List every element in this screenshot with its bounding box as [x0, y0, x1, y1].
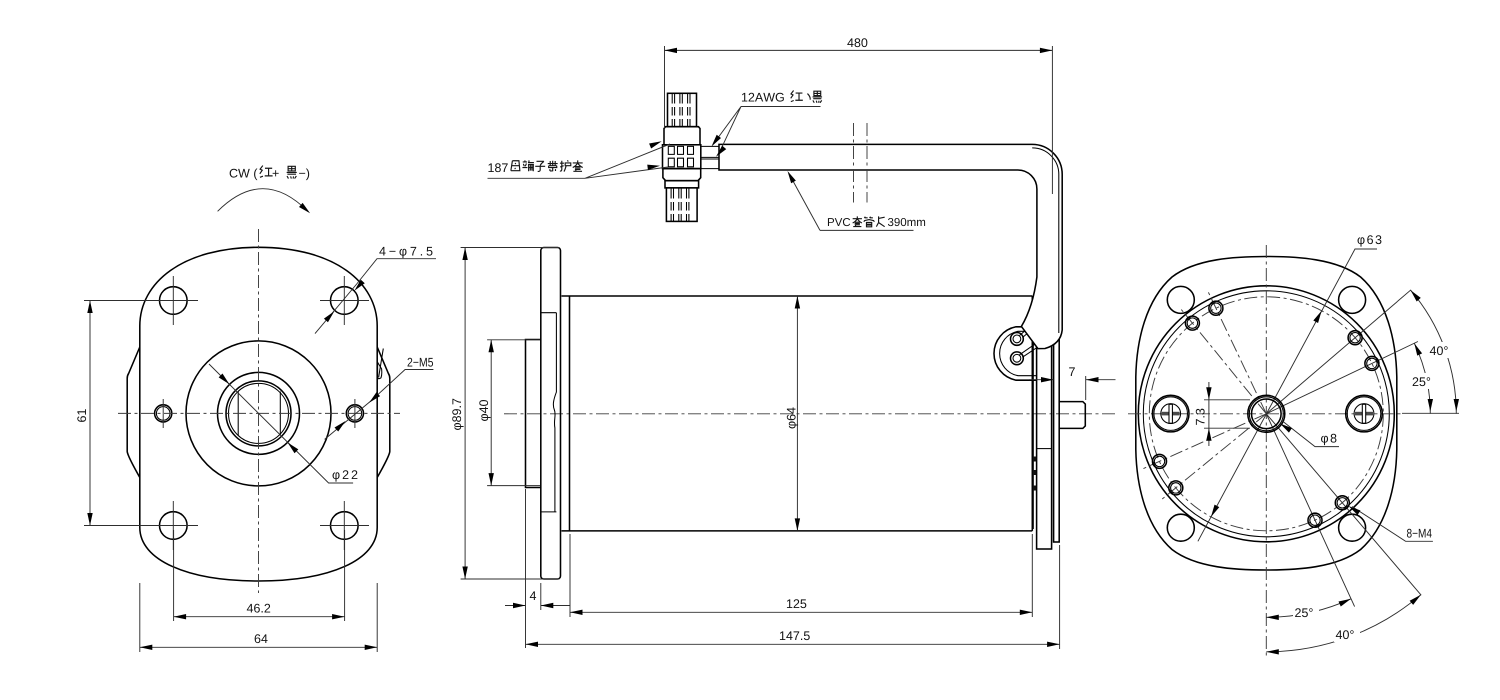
dim 147.5: [526, 545, 1060, 649]
front flange side profile: [541, 248, 561, 580]
bolt hole bottom-right: [320, 501, 369, 550]
phi8 label: [1321, 434, 1336, 445]
radial line 219.3: [1160, 414, 1267, 501]
dim 480: [665, 38, 1053, 194]
terminal crimp bottom: [666, 188, 697, 222]
terminal housing: [663, 145, 701, 169]
label 40 right: [1428, 342, 1452, 358]
M4 hole 310.5: [1335, 496, 1349, 510]
2-M5 leader: [325, 370, 434, 440]
pilot boss phi40: [526, 340, 541, 488]
corner slot top-left: [1167, 286, 1194, 313]
keyway notch quad: [378, 362, 382, 378]
M4 hole 294.6: [1308, 513, 1322, 527]
angle arc 25 right: [1412, 342, 1433, 414]
wires to connector: [701, 146, 719, 168]
front vertical centerline: [258, 229, 260, 593]
FRONT VIEW GROUP: [77, 166, 436, 652]
bearing ring outer: [226, 381, 291, 446]
dim 46.2: [174, 530, 345, 621]
terminal sleeve top: [664, 127, 700, 145]
wire eyelet lower: [1011, 352, 1024, 365]
flange hub stubs: [541, 313, 557, 512]
left side bulge: [127, 347, 140, 478]
terminal crimp top: [668, 93, 697, 126]
4-phi7.5 label: [379, 247, 432, 258]
phi63 leader diagonal: [1198, 249, 1377, 541]
rear cap plate: [1054, 287, 1060, 542]
phi63 label: [1358, 235, 1382, 246]
wire outlet boss inner arc: [1000, 331, 1037, 375]
cable break marks: [854, 123, 868, 203]
PVC leader: [785, 170, 820, 231]
through-bolt screw right: [1346, 395, 1383, 432]
12AWG label: [741, 91, 822, 107]
PVC label: [820, 216, 925, 230]
radial line 310.5: [1266, 414, 1421, 595]
center boss circle: [186, 341, 331, 486]
label 40 bottom: [1334, 626, 1360, 642]
dim 7.3: [1196, 382, 1250, 446]
M4 hole 129.2: [1185, 316, 1199, 330]
shaft flat right: [279, 392, 281, 436]
187 terminal leaders: [585, 139, 670, 179]
radial line 204.1: [1140, 414, 1266, 470]
wire stub lower: [1020, 339, 1047, 358]
body end ring line: [1032, 299, 1034, 529]
clamp step rects: [1033, 297, 1037, 313]
flange hub inner line with wiggle: [553, 313, 556, 512]
side horizontal centerline: [504, 413, 1118, 415]
rear shaft stub: [1059, 402, 1085, 429]
dim 7: [1029, 367, 1116, 400]
bolt hole bottom-left: [149, 501, 198, 550]
wire outlet boss outer arc: [994, 327, 1037, 380]
rear horizontal dim extension: [1402, 412, 1459, 414]
center shaft boss ring: [1248, 395, 1285, 432]
SIDE VIEW GROUP: [452, 38, 1118, 649]
12AWG leaders: [709, 107, 741, 159]
label 25 right: [1411, 373, 1435, 389]
dim 64: [140, 583, 377, 652]
wire eyelet upper: [1011, 333, 1024, 346]
bearing ring inner: [229, 383, 289, 443]
dim 61: [77, 301, 198, 526]
angle arc 40 right: [1409, 288, 1459, 413]
M4 hole 204.1: [1153, 454, 1167, 468]
M5 hole right: [346, 399, 363, 428]
rear horizontal centerline: [1128, 413, 1402, 415]
CW rotation arc arrow: [218, 189, 312, 216]
front horizontal centerline: [118, 412, 400, 414]
corner slot bottom-left: [1167, 514, 1194, 541]
CW label: [230, 166, 310, 181]
PVC sheath tube: [719, 144, 1062, 348]
bolt circle: [1149, 297, 1383, 531]
brush marks: [1033, 457, 1036, 491]
M5 hole left: [155, 399, 172, 428]
angle arc 25 bottom: [1266, 596, 1352, 620]
2-M5 label: [408, 358, 434, 367]
rear cover outer circle: [1138, 286, 1394, 542]
motor body cylinder: [562, 296, 1033, 531]
through-bolt screw left: [1152, 395, 1189, 432]
corner slot bottom-right: [1339, 514, 1366, 541]
M4 hole 219.3: [1169, 481, 1183, 495]
angle arc 40 bottom: [1266, 593, 1422, 655]
M4 hole 115.5: [1209, 301, 1223, 315]
bolt hole top-left: [149, 276, 198, 325]
radial line 115.5: [1207, 289, 1266, 414]
shaft flat left: [237, 392, 239, 436]
dim 4: [505, 489, 570, 648]
radial line 25.5: [1266, 342, 1418, 414]
phi22 label: [333, 470, 358, 481]
dim phi64: [787, 296, 800, 531]
rear vertical centerline: [1265, 245, 1267, 656]
label 25 bottom: [1293, 604, 1319, 620]
radial line 40.6: [1266, 290, 1411, 414]
M4 hole 25.5: [1365, 356, 1379, 370]
rear plate: [1037, 283, 1052, 550]
wire stub upper: [1020, 324, 1037, 338]
radial line 294.6: [1266, 414, 1354, 607]
corner slot top-right: [1339, 286, 1366, 313]
terminal sleeve bottom: [665, 181, 699, 188]
8-M4 leader: [1347, 504, 1433, 542]
8-M4 label: [1407, 529, 1432, 538]
rear cover inner circle: [1143, 291, 1389, 537]
dim 125: [570, 534, 1032, 617]
4-phi7.5 leader: [315, 259, 436, 334]
rear flange outline: [1136, 257, 1397, 571]
front flange outline: [140, 247, 377, 581]
sheath inner wall lines: [1032, 148, 1059, 333]
radial line 129.2: [1179, 307, 1266, 414]
right bulge sliver lines: [379, 349, 384, 378]
M4 hole 40.6: [1348, 331, 1362, 345]
dim phi89.7: [452, 248, 559, 580]
phi22 pilot circle: [218, 372, 300, 454]
phi8 leader: [1279, 421, 1339, 446]
187 terminal label: [488, 160, 586, 178]
center shaft phi8: [1252, 399, 1282, 429]
bolt hole top-right: [320, 276, 369, 325]
right side bulge: [377, 347, 390, 478]
dim phi40: [479, 340, 540, 486]
REAR VIEW GROUP: [1128, 235, 1459, 656]
terminal housing lower: [663, 169, 701, 181]
phi22 dimension diagonal: [209, 364, 353, 483]
center shaft boss ring2: [1249, 397, 1283, 431]
